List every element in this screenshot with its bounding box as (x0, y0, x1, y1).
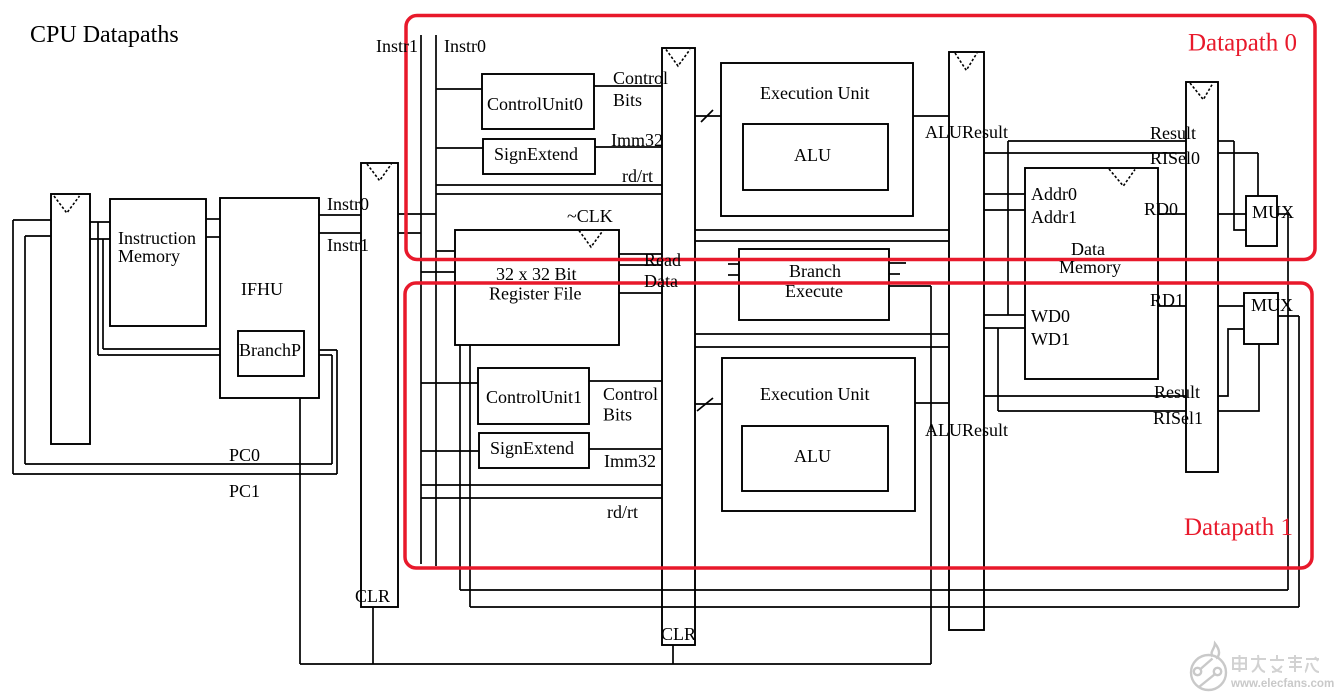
branch execute box (739, 249, 889, 320)
svg-text:SignExtend: SignExtend (494, 144, 578, 164)
wire RISel1 right segment with rise into MUX1 select (1218, 344, 1259, 411)
wire Instr1 bus stub to register file (421, 271, 455, 273)
wire Imm32 0 to register 2 (595, 146, 662, 148)
svg-text:Data: Data (644, 271, 678, 291)
wire register 2 upper feed to register 3 b (695, 240, 949, 242)
wire WD1 register 3 to data memory (984, 327, 1025, 329)
wire register 2 lower feed to register 3 a (695, 333, 949, 335)
wire PC register to instruction memory lower (90, 238, 110, 240)
write-back bottom wire B (470, 606, 1299, 608)
wire PC1 feedback left vertical (12, 220, 14, 474)
svg-text:Branch: Branch (789, 261, 841, 281)
SignExtend0 box (483, 139, 595, 174)
wire PC1 tee down beside instruction memory (102, 239, 104, 349)
wire register 2 upper feed to register 3 a (695, 229, 949, 231)
wire SignExtend1 input (421, 450, 479, 452)
wire rd/rt 0 lower (436, 193, 662, 195)
bus slash mark on execution unit 0 input (701, 110, 713, 122)
pipeline register 4 (1186, 82, 1218, 472)
wire IFHU right out to PC0 riser (319, 354, 332, 356)
execution unit 1 box (722, 358, 915, 511)
wire PC register to instruction memory upper (90, 221, 110, 223)
data memory box (1025, 168, 1158, 379)
svg-text:RD0: RD0 (1144, 199, 1178, 219)
svg-text:Execution Unit: Execution Unit (760, 83, 869, 103)
wire MUX0 output to riser (1277, 213, 1288, 215)
svg-text:WD0: WD0 (1031, 306, 1070, 326)
SignExtend1 box (479, 433, 589, 468)
MUX0 output vertical (1287, 214, 1289, 590)
wire PC0 bottom horizontal run (25, 463, 332, 465)
ControlUnit0 box (482, 74, 594, 129)
svg-text:Control: Control (613, 68, 668, 88)
svg-text:Addr1: Addr1 (1031, 207, 1077, 227)
wire read data rung 1 (619, 253, 662, 255)
wire SignExtend0 input (436, 147, 483, 149)
wire branch feedback vertical (930, 286, 932, 664)
clock triangle on CLR register 1 (367, 164, 391, 181)
watermark logo trace 2 (1199, 675, 1215, 688)
wire under instruction memory into IFHU upper (103, 348, 220, 350)
svg-text:ALUResult: ALUResult (925, 122, 1008, 142)
watermark character blob 5 (1305, 657, 1319, 672)
watermark logo flame tail (1212, 644, 1220, 659)
watermark character blob 2 (1251, 655, 1266, 672)
svg-text:Execute: Execute (785, 281, 843, 301)
wire RISel0 right segment (1218, 152, 1258, 154)
wire CLR net bottom horizontal (300, 663, 931, 665)
svg-text:Instr1: Instr1 (376, 36, 418, 56)
svg-text:Memory: Memory (1059, 257, 1121, 277)
wire Instr0 register 1 to bus (398, 213, 436, 215)
write-back riser A from register file (459, 345, 461, 590)
svg-text:MUX: MUX (1252, 202, 1294, 222)
svg-text:Bits: Bits (603, 405, 632, 425)
wire ALUResult 0 to register 3 (913, 115, 949, 117)
~CLK pipeline register 2 (662, 48, 695, 645)
clock triangle on register 2 (666, 50, 690, 67)
svg-text:PC0: PC0 (229, 445, 260, 465)
MUX 0 box (1246, 196, 1277, 246)
clock triangle on data memory (1109, 169, 1135, 186)
wire PC1 into PC register upper input (13, 219, 51, 221)
wire ControlUnit1 input (421, 382, 478, 384)
svg-text:Result: Result (1150, 123, 1196, 143)
svg-text:Instr0: Instr0 (327, 194, 369, 214)
ControlUnit1 box (478, 368, 589, 424)
watermark character blob 1 (1233, 655, 1246, 672)
instruction memory box (110, 199, 206, 326)
wire read data rung 3 (619, 292, 662, 294)
wire ControlUnit0 input (436, 88, 482, 90)
datapath 0 red boundary (406, 16, 1315, 260)
svg-text:ALU: ALU (794, 145, 831, 165)
ALU1 box (742, 426, 888, 491)
clock triangle on PC register (54, 196, 80, 213)
wire IFHU right out to PC1 riser (319, 349, 337, 351)
wire CLR pin of register 1 (372, 607, 374, 664)
wire BranchP output down from IFHU (299, 398, 301, 664)
wire PC0 into PC register lower input (25, 235, 51, 237)
svg-text:Data: Data (1071, 239, 1105, 259)
clock triangle on register file (579, 231, 603, 248)
wire Instr0 bus stub to register file (436, 250, 455, 252)
clock triangle on register 4 (1190, 83, 1213, 100)
wire instruction memory to IFHU lower (206, 236, 220, 238)
wire Imm32 1 to register 2 (589, 448, 662, 450)
wire RD1 register 4 to MUX1 (1218, 305, 1244, 307)
write-back riser B from register file (469, 345, 471, 607)
bus slash mark on execution unit 1 input (697, 398, 713, 411)
datapath 1 red boundary (405, 283, 1312, 568)
MUX1 output vertical (1298, 316, 1300, 607)
stub branch execute right b (889, 273, 900, 275)
wire register 2 to execution unit 1 (695, 403, 722, 405)
watermark character blob 4 (1288, 655, 1302, 672)
watermark logo circle (1191, 655, 1226, 690)
wire under instruction memory into IFHU lower (98, 354, 220, 356)
riser RISel1 from WD1 (997, 328, 999, 411)
riser result 0 from WD0 (1007, 141, 1009, 315)
svg-text:Datapath 1: Datapath 1 (1184, 514, 1293, 541)
svg-text:Bits: Bits (613, 90, 642, 110)
svg-text:MUX: MUX (1251, 295, 1293, 315)
svg-text:SignExtend: SignExtend (490, 438, 574, 458)
svg-text:ControlUnit0: ControlUnit0 (487, 94, 583, 114)
wire RISel0 drop into MUX0 select (1257, 153, 1259, 196)
wire Instr1 from IFHU to register 1 (319, 232, 361, 234)
wire register 2 to execution unit 0 (695, 115, 721, 117)
Instr0 vertical bus (435, 35, 437, 566)
svg-text:32 x 32 Bit: 32 x 32 Bit (496, 264, 577, 284)
write-back bottom wire A (460, 589, 1288, 591)
wire result 0 drop to MUX0 (1234, 141, 1246, 230)
svg-text:ALUResult: ALUResult (925, 420, 1008, 440)
wire instruction memory to IFHU upper (206, 218, 220, 220)
wire Instr0 from IFHU to register 1 (319, 214, 361, 216)
wire CLR pin of register 2 (672, 645, 674, 664)
svg-text:ControlUnit1: ControlUnit1 (486, 387, 582, 407)
wire Addr1 register 3 to data memory (984, 209, 1025, 211)
CLR pipeline register 1 (361, 163, 398, 607)
wire Instr1 register 1 to bus (398, 232, 421, 234)
svg-text:Register File: Register File (489, 284, 582, 304)
wire MUX1 output to riser (1278, 315, 1299, 317)
stub branch execute right a (889, 262, 906, 264)
wire branch execute output (889, 285, 931, 287)
svg-text:rd/rt: rd/rt (607, 502, 638, 522)
wire RISel0 left segment (984, 152, 1186, 154)
svg-text:CLR: CLR (355, 586, 390, 606)
svg-text:Read: Read (644, 250, 681, 270)
wire PC1 bottom horizontal run (13, 473, 337, 475)
wire result 1 right segment rise into MUX1 (1218, 329, 1244, 396)
stub branch execute left input b (728, 274, 739, 276)
svg-text:CLR: CLR (661, 624, 696, 644)
wire control bits 0 to register 2 (594, 85, 662, 87)
wire PC0 feedback left vertical (24, 236, 26, 464)
wire PC0 tee down beside instruction memory (97, 222, 99, 355)
svg-text:CPU Datapaths: CPU Datapaths (30, 22, 179, 48)
svg-text:RISel1: RISel1 (1153, 408, 1203, 428)
IFHU box (220, 198, 319, 398)
wire rd/rt 1 lower (421, 497, 662, 499)
ALU0 box (743, 124, 888, 190)
wire result 0 left segment (1008, 140, 1186, 142)
stub branch execute left input a (728, 263, 739, 265)
ALUResult pipeline register 3 (949, 52, 984, 630)
svg-text:www.elecfans.com: www.elecfans.com (1230, 677, 1334, 690)
wire PC0 riser vertical (331, 355, 333, 464)
watermark character blob 3 (1270, 655, 1284, 672)
watermark logo trace 1 (1201, 659, 1213, 670)
wire result 1 left segment (984, 395, 1186, 397)
svg-text:Instruction: Instruction (118, 228, 196, 248)
wire read data rung 2 (619, 264, 662, 266)
svg-text:~CLK: ~CLK (567, 206, 613, 226)
wire rd/rt 0 upper (436, 184, 662, 186)
wire RD0 data memory to register 4 (1158, 213, 1186, 215)
svg-text:Datapath 0: Datapath 0 (1188, 30, 1297, 57)
wire WD0 register 3 to data memory (984, 314, 1025, 316)
Instr1 vertical bus (420, 35, 422, 564)
svg-text:RISel0: RISel0 (1150, 148, 1200, 168)
wire PC1 riser vertical (336, 350, 338, 474)
wire RD1 data memory to register 4 (1158, 305, 1186, 307)
svg-text:Instr0: Instr0 (444, 36, 486, 56)
watermark logo node 2 (1214, 668, 1221, 675)
svg-text:WD1: WD1 (1031, 329, 1070, 349)
wire RD0 register 4 to MUX0 (1218, 213, 1246, 215)
wire RISel1 left segment (998, 410, 1186, 412)
svg-text:Control: Control (603, 384, 658, 404)
execution unit 0 box (721, 63, 913, 216)
PC register (51, 194, 90, 444)
svg-text:Addr0: Addr0 (1031, 184, 1077, 204)
svg-text:RD1: RD1 (1150, 290, 1184, 310)
svg-text:IFHU: IFHU (241, 279, 283, 299)
svg-text:BranchP: BranchP (239, 340, 301, 360)
svg-text:Result: Result (1154, 382, 1200, 402)
wire Addr0 register 3 to data memory (984, 193, 1025, 195)
wire result 0 right segment (1218, 140, 1234, 142)
wire register 2 lower feed to register 3 b (695, 346, 949, 348)
svg-text:ALU: ALU (794, 446, 831, 466)
MUX 1 box (1244, 293, 1278, 344)
clock triangle on register 3 (955, 53, 977, 70)
svg-text:PC1: PC1 (229, 481, 260, 501)
svg-text:Instr1: Instr1 (327, 235, 369, 255)
wire rd/rt 1 upper (421, 484, 662, 486)
svg-text:Imm32: Imm32 (604, 451, 656, 471)
svg-text:rd/rt: rd/rt (622, 166, 653, 186)
wire ALUResult 1 to register 3 (915, 402, 949, 404)
wire control bits 1 to register 2 (589, 380, 662, 382)
BranchP box (238, 331, 304, 376)
svg-text:Execution Unit: Execution Unit (760, 384, 869, 404)
svg-text:Imm32: Imm32 (611, 130, 663, 150)
register file box (455, 230, 619, 345)
watermark logo node 1 (1194, 668, 1201, 675)
svg-text:Memory: Memory (118, 246, 180, 266)
